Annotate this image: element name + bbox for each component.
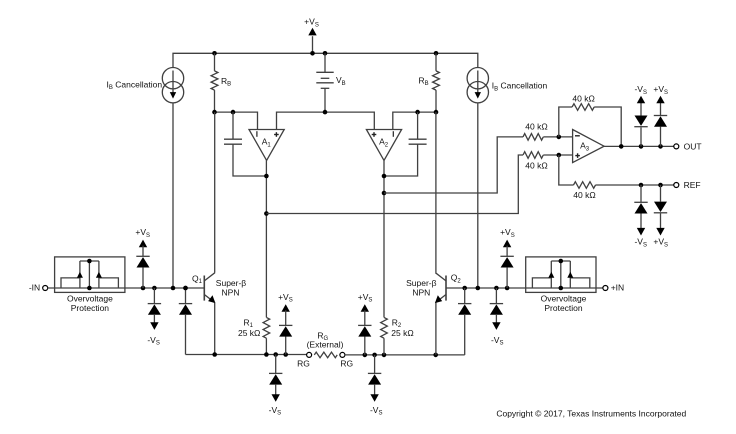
power +VS supply arrow (top center) [304, 17, 319, 54]
wire A1 output to A3 noninverting [266, 155, 523, 214]
transistor Q1 super-beta NPN [204, 273, 215, 303]
svg-text:25 kΩ: 25 kΩ [238, 328, 260, 338]
op-amp A1 [249, 130, 284, 161]
current source IB cancellation (right) [467, 68, 488, 103]
diode input +VS clamp (right) [500, 227, 515, 288]
node junction REF clamp left [639, 183, 644, 188]
node junction gain rail -VS diode [273, 352, 278, 357]
wire top supply rail [173, 53, 478, 68]
node junction RB-left bottom [212, 110, 217, 115]
wire right IB source to input rail [477, 103, 479, 288]
svg-text:Protection: Protection [544, 303, 583, 313]
wire A1 inverting input from RB-left [215, 112, 258, 129]
terminal REF [674, 180, 701, 190]
current source IB cancellation (left) [162, 68, 183, 103]
node junction input rail at +VS diode [141, 286, 146, 291]
node junction top rail at +VS arrow [310, 51, 315, 56]
svg-text:Protection: Protection [71, 303, 110, 313]
diode clamp OUT to -VS [634, 96, 647, 147]
resistor 40k feedback [559, 104, 621, 147]
svg-text:Overvoltage: Overvoltage [67, 293, 113, 303]
label IB Cancellation (right) [492, 81, 548, 93]
resistor RB right [433, 53, 440, 112]
node junction gain rail +VS diode [283, 352, 288, 357]
label -VS (REF clamp) [634, 237, 647, 249]
node junction gain rail Q2 emitter [433, 353, 438, 358]
diode gain node -VS clamp (right) [368, 355, 381, 402]
wire +IN input rail (right) [446, 287, 603, 289]
svg-text:40 kΩ: 40 kΩ [525, 122, 547, 132]
diode input +VS clamp (left) [135, 227, 150, 288]
node junction A3 noninverting [557, 153, 562, 158]
label Q1 [192, 273, 203, 285]
overvoltage protection block (right) [526, 257, 596, 293]
svg-text:OUT: OUT [684, 142, 702, 152]
wire gain rail (left) [186, 354, 307, 356]
node junction feedback at output [619, 144, 624, 149]
label 25 kOhm (R1) [238, 328, 260, 338]
wire Q1 emitter to gain rail [214, 303, 216, 355]
node junction right rail clamp diode [462, 286, 467, 291]
wire A1 output column [265, 160, 267, 317]
diode input to gain node (left) [179, 288, 192, 355]
label -VS (right gain clamp) [370, 405, 383, 417]
label RB left [221, 76, 231, 88]
node junction output clamp right [658, 144, 663, 149]
node junction right rail -VS diode [494, 286, 499, 291]
svg-text:(External): (External) [307, 340, 344, 350]
terminal RG left [307, 352, 312, 357]
transistor Q2 super-beta NPN [435, 273, 446, 303]
node junction gain rail R2 [382, 353, 387, 358]
label Super-beta NPN (left) [216, 278, 247, 298]
label -VS (OUT clamp) [634, 84, 647, 96]
node junction RB-right bottom [434, 110, 439, 115]
resistor RG external [314, 352, 337, 358]
label Overvoltage Protection (right) [541, 293, 587, 313]
svg-text:Overvoltage: Overvoltage [541, 293, 587, 303]
svg-text:NPN: NPN [412, 288, 430, 298]
wire Q1 collector to RB-left [214, 112, 216, 273]
node junction Q1 base [183, 286, 188, 291]
node junction input rail at clamp diode [183, 286, 188, 291]
node junction right rail +VS diode [505, 286, 510, 291]
node junction A2 output to A3 tap [382, 191, 387, 196]
battery VB [316, 53, 333, 112]
terminal -IN [29, 283, 48, 293]
diode clamp REF to -VS [634, 185, 647, 236]
svg-text:25 kΩ: 25 kΩ [391, 328, 413, 338]
wire left IB source to input rail [172, 103, 174, 288]
diode input to gain node (right) [458, 288, 471, 355]
svg-text:RG: RG [297, 359, 310, 369]
resistor RB left [211, 53, 218, 112]
label Q2 [451, 273, 462, 285]
label RB right [419, 75, 429, 87]
label -VS (right input clamp) [491, 335, 504, 347]
label 25 kOhm (R2) [391, 328, 413, 338]
terminal OUT [674, 142, 702, 152]
label +VS (REF clamp) [653, 237, 668, 249]
label VB [336, 75, 346, 87]
terminal +IN [603, 283, 624, 293]
node junction top rail at RB-left [212, 51, 217, 56]
diode input -VS clamp (right) [490, 288, 503, 330]
node junction gain rail +VS diode right [363, 353, 368, 358]
svg-text:Copyright © 2017, Texas Instru: Copyright © 2017, Texas Instruments Inco… [496, 409, 686, 419]
label Super-beta NPN (right) [406, 278, 437, 298]
label Overvoltage Protection (left) [67, 293, 113, 313]
diode gain node -VS clamp (left) [269, 355, 282, 402]
diode input -VS clamp (left) [148, 288, 161, 330]
wire Q2 collector to RB-right [435, 112, 437, 273]
wire Q2 emitter to gain rail [435, 303, 437, 355]
resistor R1 25k [263, 317, 270, 354]
diode clamp OUT to +VS [654, 96, 667, 147]
node junction top rail at RB-right [434, 51, 439, 56]
label 40 kOhm (REF) [573, 190, 595, 200]
node junction A1 output cap return [264, 174, 269, 179]
svg-text:RG: RG [340, 359, 353, 369]
svg-text:40 kΩ: 40 kΩ [572, 94, 594, 104]
terminal RG right [340, 352, 345, 357]
label copyright [496, 409, 686, 419]
node junction top rail at battery [323, 51, 328, 56]
wire A2 output to A3 inverting [384, 137, 523, 193]
label -VS (left input clamp) [147, 335, 160, 347]
wire A1 noninverting to A2 noninverting via battery [277, 112, 375, 129]
label R2 [392, 317, 402, 329]
node junction A1 output to A3 tap [264, 211, 269, 216]
node junction REF clamp right [658, 183, 663, 188]
svg-text:40 kΩ: 40 kΩ [525, 161, 547, 171]
resistor R2 25k [381, 317, 388, 355]
node junction output clamp left [639, 144, 644, 149]
label 40 kOhm (feedback) [572, 94, 594, 104]
capacitor C2 (A2 compensation) [384, 112, 427, 176]
label R1 [244, 317, 254, 329]
node junction A3 inverting [557, 135, 562, 140]
diode gain node +VS clamp (left) [278, 292, 293, 355]
node junction A2 cap tap [415, 110, 420, 115]
wire A2 output column [383, 160, 385, 317]
label IB Cancellation (left) [107, 79, 163, 91]
svg-text:Super-β: Super-β [406, 278, 437, 288]
svg-text:Super-β: Super-β [216, 278, 247, 288]
svg-text:+IN: +IN [611, 283, 624, 293]
node junction right rail IB source [476, 286, 481, 291]
diode clamp REF to +VS [654, 185, 667, 236]
capacitor C1 (A1 compensation) [224, 112, 266, 176]
node junction A2 output cap return [382, 174, 387, 179]
label +VS (OUT clamp) [653, 84, 668, 96]
svg-text:REF: REF [684, 180, 701, 190]
resistor 40k (A3 noninverting input) [523, 152, 573, 159]
svg-text:40 kΩ: 40 kΩ [573, 190, 595, 200]
label RG (right) [340, 359, 353, 369]
svg-text:NPN: NPN [222, 287, 240, 297]
node junction gain rail R1 [264, 352, 269, 357]
label -VS (left gain clamp) [269, 405, 282, 417]
diode gain node +VS clamp (right) [358, 292, 373, 355]
node junction A1 cap tap [231, 110, 236, 115]
node junction battery bottom [323, 110, 328, 115]
label RG value [307, 330, 344, 349]
wire A2 inverting input to RB-right [393, 112, 436, 129]
node junction gain rail Q1 emitter [212, 352, 217, 357]
op-amp A3 [573, 130, 605, 163]
resistor 40k (A3 inverting input) [523, 134, 573, 141]
label 40 kOhm (inverting input) [525, 122, 547, 132]
label 40 kOhm (noninverting input) [525, 161, 547, 171]
node junction input rail at -VS diode [152, 286, 157, 291]
svg-text:-IN: -IN [29, 283, 40, 293]
op-amp A2 [366, 130, 401, 161]
overvoltage protection block (left) [55, 257, 125, 293]
node junction input rail at IB source [171, 286, 176, 291]
node junction gain rail -VS diode right [372, 353, 377, 358]
wire gain rail (right) [345, 354, 465, 356]
resistor 40k (REF) [559, 155, 674, 188]
wire -IN input rail (left) [48, 287, 205, 289]
label RG (left) [297, 359, 310, 369]
wire A3 output to OUT [604, 145, 674, 147]
